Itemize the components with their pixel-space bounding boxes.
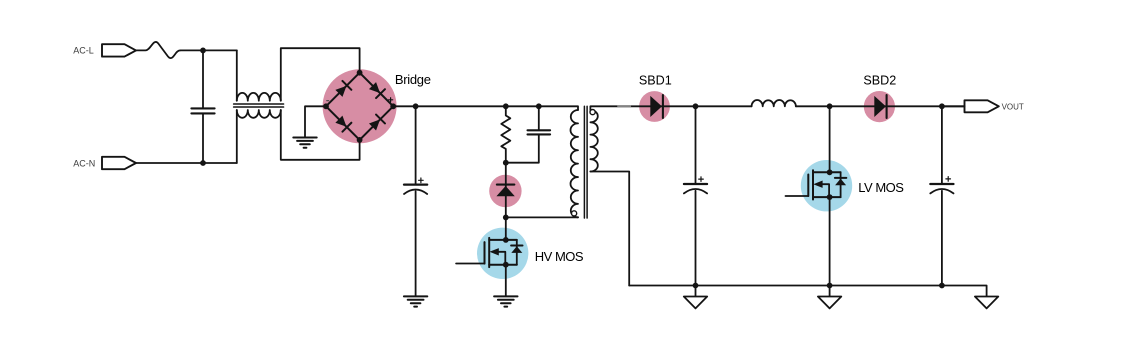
capacitor C1 curved plate: [404, 190, 427, 194]
transformer T1 primary polarity dot: [572, 211, 577, 216]
bridge diode D4 (bottom to right): [368, 115, 385, 132]
common-mode choke L1 left vertical (AC-N side): [236, 110, 238, 163]
junction HV MOS drain bar: [503, 237, 509, 243]
svg-text:AC-N: AC-N: [73, 158, 95, 168]
capacitor C3 output lead top: [695, 106, 697, 183]
chassis ground stub under C3: [695, 286, 697, 297]
bridge diode D2 (top to right): [368, 81, 385, 98]
highlight circle for SBD1: [639, 91, 670, 122]
LV MOS drain lead: [829, 106, 831, 172]
capacitor C3 plus mark: [699, 177, 704, 182]
capacitor CX1 X-cap vertical leads: [202, 50, 204, 163]
LV MOS gate lead: [786, 195, 809, 197]
diode SBD1 cathode bar: [662, 95, 664, 118]
highlight circle for clamp diode: [489, 175, 521, 207]
svg-text:VOUT: VOUT: [1002, 102, 1024, 111]
junction LV MOS source bar: [827, 194, 833, 200]
resistor R1 snubber: [501, 106, 510, 162]
wire VOUT rail stub: [942, 105, 965, 107]
bridge diode D3 (left to bottom): [334, 115, 351, 132]
inductor L2 output: [752, 100, 796, 106]
junction bridge top vertex: [357, 70, 363, 76]
wire choke to bridge bottom: [281, 110, 360, 160]
svg-text:AC-L: AC-L: [73, 46, 94, 56]
capacitor C3 top plate: [684, 183, 707, 185]
junction HV MOS source bar: [503, 262, 509, 268]
HV MOS gate lead: [456, 263, 484, 265]
diode SBD2 triangle: [874, 96, 886, 117]
port VOUT connector flag: [965, 100, 999, 112]
junction SBD1 out / C3: [693, 103, 699, 109]
junction ground bus / LV source: [827, 283, 833, 289]
svg-text:HV MOS: HV MOS: [535, 249, 584, 264]
earth ground G3 (HV MOS source): [494, 296, 517, 306]
wire secondary bottom return: [590, 172, 629, 286]
capacitor C2 snubber lead top: [538, 106, 540, 130]
bridge rectifier diamond wires: [326, 73, 393, 140]
junction node AC-N / X-cap: [200, 160, 206, 166]
fuse F1 on AC-L line: [136, 42, 180, 58]
common-mode choke L1 top winding: [237, 93, 281, 101]
port AC-L connector flag: [102, 44, 136, 56]
gray dash marker on secondary rail: [618, 105, 630, 107]
junction C4 / VOUT rail: [939, 103, 945, 109]
HV MOS drain lead: [505, 217, 507, 240]
wire secondary top to output rail: [590, 106, 751, 110]
junction clamp / primary / drain: [503, 215, 509, 221]
junction bulk cap / rail: [413, 103, 419, 109]
diode SBD1 triangle: [650, 96, 662, 117]
capacitor C1 plus mark: [419, 178, 424, 183]
transformer T1 secondary winding: [590, 110, 597, 172]
wire AC-N from flag to choke: [136, 162, 237, 164]
capacitor C2 plates: [528, 130, 551, 134]
svg-text:Bridge: Bridge: [395, 72, 431, 87]
capacitor C3 curved plate: [684, 189, 707, 193]
junction bridge bottom vertex: [357, 137, 363, 143]
capacitor C1 bulk lead top: [415, 106, 417, 183]
junction inductor / SBD2 / LV drain: [827, 103, 833, 109]
junction ground bus / C3: [693, 283, 699, 289]
transistor Q2 LV MOS symbol: [808, 170, 846, 199]
clamp diode D5 cathode bar: [497, 184, 514, 186]
junction LV MOS drain bar: [827, 169, 833, 175]
junction ground bus / C4: [939, 283, 945, 289]
capacitor C2 lead bottom and wire to node: [506, 135, 539, 163]
junction bridge right vertex: [390, 103, 396, 109]
earth ground G2 (bulk cap): [404, 296, 427, 306]
wire AC-L to X-cap node: [180, 49, 237, 51]
junction snubber R / rail: [503, 103, 509, 109]
highlight circle for SBD2: [864, 91, 895, 122]
port AC-N connector flag: [102, 157, 136, 169]
svg-text:SBD1: SBD1: [639, 74, 672, 88]
bridge plus mark: [389, 98, 393, 102]
capacitor C4 plus mark: [946, 177, 951, 182]
capacitor CX1 plates: [191, 108, 214, 113]
wire bridge negative to earth ground: [305, 106, 326, 137]
transformer T1 primary winding: [571, 110, 578, 217]
clamp diode D5 lead: [505, 163, 507, 218]
capacitor C3 lead bottom: [695, 191, 697, 286]
chassis ground triangle under LV MOS: [818, 297, 841, 309]
transistor Q1 HV MOS symbol: [485, 238, 523, 267]
highlight circle for HV MOS: [477, 228, 528, 279]
capacitor C4 top plate: [930, 183, 953, 185]
chassis ground triangle far right: [975, 297, 998, 309]
bridge minus mark: [327, 100, 329, 102]
diode SBD2 cathode bar: [886, 95, 888, 118]
bridge diode D1 (left to top): [334, 81, 351, 98]
chassis ground stub under LV MOS: [829, 286, 831, 297]
junction snubber C / rail: [536, 103, 542, 109]
highlight circle for LV MOS: [801, 160, 852, 211]
wire clamp node to transformer primary bottom: [506, 216, 578, 218]
LV MOS source lead: [829, 197, 831, 285]
junction bridge left vertex: [323, 103, 329, 109]
svg-text:SBD2: SBD2: [863, 74, 896, 88]
common-mode choke L1 core lines: [234, 104, 284, 107]
common-mode choke L1 bottom winding: [237, 110, 281, 118]
HV MOS source lead to ground: [505, 265, 507, 297]
capacitor C1 top plate: [404, 184, 427, 186]
earth ground G1 (bridge return): [293, 138, 316, 148]
wire HV DC rail: bridge + to transformer primary top: [393, 106, 578, 110]
capacitor C4 lead bottom: [941, 191, 943, 286]
capacitor C4 curved plate: [930, 189, 953, 193]
highlight circle for bridge: [323, 69, 397, 143]
clamp diode D5 triangle: [496, 186, 514, 196]
wire inductor to VOUT rail: [796, 105, 965, 107]
junction snubber node: [503, 160, 509, 166]
common-mode choke L1 left vertical (AC-L side): [236, 50, 238, 100]
wire secondary ground bus: [629, 286, 986, 297]
junction node AC-L / X-cap: [200, 48, 206, 54]
transformer T1 secondary polarity dot: [590, 110, 595, 115]
chassis ground triangle under C3: [684, 297, 707, 309]
capacitor C1 lead bottom: [415, 191, 417, 296]
transformer T1 core lines: [584, 106, 587, 218]
svg-text:LV MOS: LV MOS: [858, 180, 904, 195]
wire choke to bridge top: [281, 48, 360, 100]
capacitor C4 output lead top: [941, 106, 943, 183]
